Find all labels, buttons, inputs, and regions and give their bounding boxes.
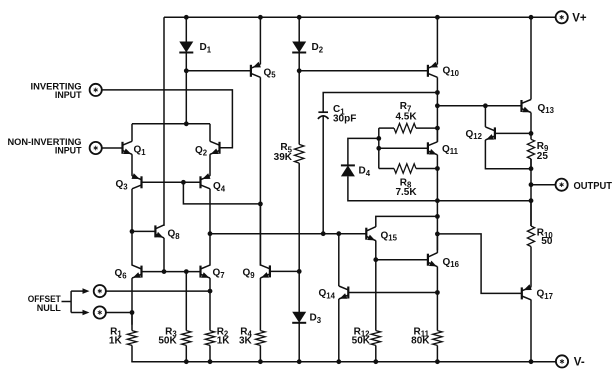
svg-text:50K: 50K: [352, 336, 371, 347]
wire non-inverting input: [102, 147, 124, 149]
wire bottom V- rail: [131, 361, 556, 363]
wire Q6-Q7 base rail: [142, 271, 201, 273]
transistor Q1: [123, 141, 147, 157]
transistor Q7: [201, 265, 225, 280]
wire Q8 base tap: [132, 230, 155, 232]
transistor Q9: [243, 265, 270, 280]
transistor Q13: [522, 100, 555, 116]
terminal NON-INVERTING INPUT: [8, 136, 102, 156]
label OFFSET NULL: [28, 293, 61, 313]
wire D4 bottom long wire: [348, 176, 531, 200]
wire Q5 collector column to Q9: [259, 77, 261, 265]
wire C1 bottom: [322, 116, 324, 233]
offset null arrow lower: [83, 310, 90, 316]
terminal OFFSET NULL upper: [94, 285, 106, 297]
resistor R12: [352, 260, 381, 362]
offset null bracket: [62, 291, 85, 312]
wire Q14 collector up: [338, 234, 340, 286]
terminal V+: [556, 11, 587, 24]
wire C1 top: [323, 93, 437, 113]
wire Q9 collector up: [259, 204, 261, 266]
wire Q6 emitter down: [131, 278, 133, 325]
svg-text:39K: 39K: [274, 152, 293, 163]
diode D1: [179, 42, 211, 55]
wire Q15 emitter down: [375, 241, 377, 260]
svg-text:OUTPUT: OUTPUT: [574, 181, 613, 192]
wire Q1 collector corner: [131, 124, 133, 142]
svg-text:7.5K: 7.5K: [395, 187, 417, 198]
wire Q11 collector up: [436, 128, 438, 142]
transistor Q11: [428, 142, 459, 156]
diode D3: [292, 312, 322, 325]
resistor R9: [527, 133, 549, 168]
transistor Q2: [195, 141, 220, 157]
wire Q14 emitter down: [338, 299, 340, 362]
wire Q15 collector: [376, 216, 438, 227]
wire R7-R8 left connector: [378, 128, 380, 168]
wire Q14 base: [348, 292, 437, 294]
wire D3 to rail: [298, 323, 300, 362]
svg-text:1K: 1K: [217, 336, 231, 347]
diode D2: [292, 42, 324, 55]
transistor Q15: [366, 227, 397, 243]
svg-text:1K: 1K: [109, 336, 123, 347]
wire Q4 collector down: [209, 189, 211, 266]
terminal OUTPUT: [556, 179, 613, 192]
transistor Q8: [155, 225, 180, 241]
wire D2 column: [298, 17, 300, 74]
svg-text:V-: V-: [574, 356, 585, 368]
wire Q13 collector to rail: [530, 17, 532, 99]
transistor Q12: [466, 127, 495, 141]
svg-text:3K: 3K: [239, 336, 253, 347]
resistor R5: [274, 142, 304, 166]
svg-text:50K: 50K: [158, 336, 177, 347]
terminal V-: [556, 355, 585, 368]
wire Q12 emitter wire: [485, 140, 531, 169]
svg-text:80K: 80K: [411, 336, 430, 347]
wire R9 to output node: [530, 159, 532, 226]
wire top rail left drop (Q8 collector column): [163, 17, 165, 226]
wire D4 top: [348, 138, 379, 165]
wire Q5 emitter to rail: [259, 17, 261, 64]
wire Q11 base: [379, 147, 428, 149]
svg-text:V+: V+: [572, 13, 587, 25]
wire Q5 base: [186, 70, 251, 72]
wire Q11 emitter column: [436, 201, 438, 251]
wire Q16 node to Q17 base: [437, 234, 521, 294]
resistor R11: [411, 293, 442, 362]
wire R5 to Q9 base junction: [298, 166, 300, 313]
wire D1 column: [185, 17, 187, 124]
transistor Q10: [428, 62, 460, 78]
transistor Q14: [319, 286, 349, 300]
transistor Q17: [522, 284, 553, 301]
svg-text:25: 25: [537, 151, 549, 162]
wire Q16 collector up: [436, 234, 438, 253]
terminal INVERTING INPUT: [31, 80, 102, 100]
wire Q15 to Q16 base: [376, 259, 428, 261]
wire Q11 emitter down: [436, 155, 438, 201]
svg-text:NULL: NULL: [37, 302, 61, 313]
wire Q8 emitter down: [163, 238, 165, 272]
wire Q3 collector down: [131, 189, 133, 266]
wire output tap: [531, 184, 556, 186]
wire Q16 emitter down: [436, 267, 438, 293]
resistor R4: [239, 278, 265, 362]
capacitor C1: [318, 104, 356, 124]
svg-text:4.5K: 4.5K: [395, 112, 417, 123]
resistor R10: [527, 201, 553, 287]
transistor Q6: [115, 265, 142, 280]
wire Q10 collector column: [436, 77, 438, 142]
wire Q17 collector down: [530, 300, 532, 362]
wire Q13 emitter down: [530, 113, 532, 134]
wire offset null upper: [106, 290, 210, 292]
wire Q1-Q2 collector rail: [132, 123, 210, 125]
resistor R3: [158, 272, 191, 362]
wire offset null lower: [106, 312, 132, 314]
resistor R7: [379, 101, 438, 133]
svg-text:INPUT: INPUT: [55, 89, 82, 100]
wire Q3/Q4 base to Q9 collector: [183, 182, 260, 204]
wire Q15 base rail: [210, 233, 366, 235]
wire Q10 base: [299, 70, 428, 72]
wire Q9 base to D3 column: [270, 270, 299, 272]
wire Q10 emitter to rail: [436, 17, 438, 64]
wire Q3-Q4 base rail: [142, 181, 201, 183]
wire Q13 base rail: [437, 105, 521, 107]
wire Q12 collector up: [484, 106, 486, 127]
wire Q1 emitter down to Q3: [131, 154, 133, 176]
transistor Q3: [116, 173, 142, 191]
svg-text:INPUT: INPUT: [55, 144, 82, 155]
resistor R2: [205, 278, 230, 362]
transistor Q5: [251, 62, 276, 80]
svg-text:50: 50: [541, 236, 553, 247]
wire R5 column upper: [298, 71, 300, 144]
wire Q2 emitter down to Q4: [209, 154, 211, 176]
resistor R1: [109, 313, 137, 362]
wire Q12 base: [495, 132, 531, 134]
wire top V+ rail: [164, 16, 556, 18]
wire inverting input: [102, 90, 233, 148]
wire Q2 collector corner: [209, 124, 211, 142]
transistor Q16: [428, 253, 460, 269]
transistor Q4: [201, 173, 226, 193]
diode D4: [341, 165, 371, 177]
svg-text:30pF: 30pF: [333, 114, 356, 125]
resistor R8: [379, 164, 438, 198]
offset null arrow upper: [83, 288, 90, 294]
terminal OFFSET NULL lower: [94, 306, 106, 318]
